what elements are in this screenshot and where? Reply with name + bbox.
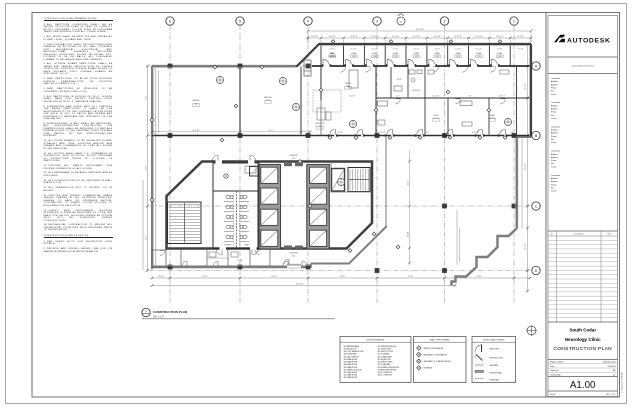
svg-text:Phone: Phone	[551, 87, 556, 89]
svg-text:EXISTING DOOR: EXISTING DOOR	[490, 358, 504, 360]
svg-text:16'-1 3/4": 16'-1 3/4"	[349, 95, 356, 97]
elevator bank 1	[258, 165, 281, 250]
svg-text:9'-2 1/2": 9'-2 1/2"	[414, 48, 420, 50]
svg-text:NEW DOOR: NEW DOOR	[490, 348, 500, 350]
autodesk logo mark	[554, 35, 565, 42]
svg-text:EXAM: EXAM	[435, 52, 440, 55]
misc small equipment rects	[317, 108, 325, 120]
exam room doors on grid A	[323, 65, 330, 68]
svg-text:TEAM: TEAM	[490, 114, 495, 117]
grid bubbles right A B C D	[532, 62, 540, 70]
exterior wall grid D bottom with columns	[152, 266, 311, 268]
svg-text:Consultant: Consultant	[551, 77, 561, 80]
svg-text:EXAM: EXAM	[497, 52, 502, 55]
svg-text:Address: Address	[551, 83, 558, 86]
janitor room	[224, 174, 229, 179]
svg-text:ROOM SCHEDULE: ROOM SCHEDULE	[367, 339, 385, 341]
svg-text:11'-4 1/2": 11'-4 1/2"	[392, 36, 400, 38]
svg-text:11'-4 1/2": 11'-4 1/2"	[311, 36, 319, 38]
restroom block	[213, 163, 259, 249]
svg-text:412 EXAM ROOM: 412 EXAM ROOM	[344, 374, 358, 377]
core outline walls	[167, 162, 373, 249]
svg-text:DOOR & WALL LEGEND: DOOR & WALL LEGEND	[483, 338, 505, 341]
stair east	[348, 168, 370, 192]
svg-text:1/8" = 1'-0": 1/8" = 1'-0"	[606, 394, 616, 396]
svg-text:Address: Address	[551, 104, 558, 107]
svg-text:2: 2	[444, 19, 446, 23]
exterior wall right upper	[530, 44, 532, 137]
detail callout circles	[216, 76, 223, 83]
svg-text:Date: Date	[607, 233, 611, 236]
svg-text:11'-4 1/2": 11'-4 1/2"	[496, 36, 504, 38]
svg-text:Project number: Project number	[550, 361, 564, 364]
core service room east	[331, 191, 372, 193]
svg-text:1205: 1205	[292, 158, 296, 160]
title block outer border	[546, 13, 620, 398]
svg-text:RATED TO DECK ABOVE: RATED TO DECK ABOVE	[424, 347, 444, 350]
svg-text:0001-010-909: 0001-010-909	[603, 362, 616, 364]
keynote diamonds	[234, 104, 238, 108]
svg-text:WALL TYPE LEGEND: WALL TYPE LEGEND	[430, 338, 450, 341]
exterior wall jog at grid B	[517, 136, 531, 138]
svg-text:404 N. HALLWAY: 404 N. HALLWAY	[344, 353, 358, 356]
autodesk logo box	[548, 16, 618, 58]
general notes text column	[44, 18, 113, 256]
doors at core top/bottom	[216, 159, 223, 163]
svg-text:11'-4 1/2": 11'-4 1/2"	[475, 36, 483, 38]
svg-text:9'-2 1/2": 9'-2 1/2"	[372, 48, 378, 50]
partition x321	[320, 67, 322, 100]
svg-text:4: 4	[307, 19, 309, 23]
svg-text:11'-4 1/2": 11'-4 1/2"	[413, 36, 421, 38]
svg-text:Phone: Phone	[551, 136, 556, 138]
svg-text:Scale: Scale	[550, 394, 556, 396]
svg-text:20'-2": 20'-2"	[269, 130, 274, 132]
svg-text:Address: Address	[551, 80, 558, 83]
svg-text:21'-8": 21'-8"	[145, 166, 147, 170]
svg-text:Consultant: Consultant	[551, 150, 561, 153]
svg-text:11'-4 1/2": 11'-4 1/2"	[371, 36, 379, 38]
svg-text:22'-10": 22'-10"	[202, 276, 208, 278]
svg-text:EXAM: EXAM	[477, 52, 482, 55]
svg-text:9'-2 1/2": 9'-2 1/2"	[476, 48, 482, 50]
svg-text:Checked by: Checked by	[550, 374, 561, 376]
svg-text:400: 400	[400, 21, 403, 23]
svg-text:A1.00: A1.00	[570, 380, 596, 391]
svg-text:407 EXAM ROOM: 407 EXAM ROOM	[344, 361, 358, 364]
keynote circle top	[397, 17, 405, 25]
svg-text:22'-10": 22'-10"	[158, 276, 164, 278]
svg-text:Address: Address	[551, 156, 558, 159]
svg-text:INSULATED TO DECK ABOVE: INSULATED TO DECK ABOVE	[424, 353, 448, 356]
svg-text:5/1/2024: 5/1/2024	[608, 366, 617, 368]
svg-text:11'-4 1/2": 11'-4 1/2"	[329, 36, 337, 38]
svg-text:414 STAFF RESTROOM: 414 STAFF RESTROOM	[378, 345, 397, 348]
svg-text:MEN'S: MEN'S	[245, 245, 250, 247]
svg-text:CORR.: CORR.	[238, 260, 243, 262]
svg-text:9'-2 1/2": 9'-2 1/2"	[497, 48, 503, 50]
svg-text:CONSTRUCTION PLAN: CONSTRUCTION PLAN	[553, 346, 612, 352]
svg-text:406 EXAM ROOM: 406 EXAM ROOM	[344, 358, 358, 361]
corridor wall east x386	[385, 137, 387, 227]
svg-text:South Cedar: South Cedar	[569, 328, 596, 333]
svg-text:PLUMBING: PLUMBING	[424, 368, 433, 370]
svg-text:6: 6	[169, 19, 171, 23]
web address box	[548, 57, 618, 74]
svg-text:8'-4 1/2": 8'-4 1/2"	[337, 132, 343, 134]
mid horizontal partition y98	[376, 97, 530, 99]
wall poche light lines	[152, 67, 296, 69]
svg-text:Fax: Fax	[551, 139, 554, 141]
svg-text:INSULATED TO 6" ABOVE CEILING: INSULATED TO 6" ABOVE CEILING	[424, 360, 452, 363]
svg-text:9'-2 1/2": 9'-2 1/2"	[435, 48, 441, 50]
drawing frame border	[32, 13, 546, 398]
compass symbol	[527, 326, 536, 335]
svg-text:9'-2 1/2": 9'-2 1/2"	[518, 48, 524, 50]
vertical dim line mid-right	[409, 150, 411, 265]
casework along x376 room	[349, 70, 358, 88]
svg-text:29'-4 1/2": 29'-4 1/2"	[192, 130, 200, 132]
svg-text:10'-1": 10'-1"	[426, 132, 430, 134]
svg-text:e-mail: e-mail	[551, 166, 557, 168]
svg-text:411 EXAM ROOM: 411 EXAM ROOM	[344, 371, 358, 374]
svg-text:EXISTING WALL: EXISTING WALL	[490, 371, 503, 374]
svg-text:CORRIDOR: CORRIDOR	[289, 253, 299, 255]
svg-text:Drawn by: Drawn by	[550, 370, 558, 372]
bottom dimension strings	[152, 277, 530, 279]
svg-text:OFFICE: OFFICE	[345, 83, 352, 85]
svg-text:www.autodesk.com/revit: www.autodesk.com/revit	[571, 64, 594, 67]
restroom fixtures middle band	[409, 70, 415, 74]
inner vertical dimension near steps	[456, 210, 458, 265]
svg-text:12'-8 1/2": 12'-8 1/2"	[472, 132, 479, 134]
project info rows	[548, 360, 618, 377]
svg-text:29'-4 1/2": 29'-4 1/2"	[525, 163, 527, 170]
svg-text:13'-2 1/2": 13'-2 1/2"	[499, 95, 506, 97]
construction plan view title	[142, 308, 150, 316]
svg-text:CORRIDOR: CORRIDOR	[289, 155, 299, 157]
revision table	[548, 231, 618, 322]
svg-text:e-mail: e-mail	[551, 191, 557, 193]
project title box	[548, 322, 618, 360]
small shaft next to east stair	[332, 169, 345, 192]
svg-text:CONSTRUCTION PLAN: CONSTRUCTION PLAN	[153, 310, 188, 314]
svg-text:Phone: Phone	[551, 184, 556, 186]
bottom small room left	[152, 250, 166, 267]
exterior wall grid A left	[152, 65, 297, 67]
narrow shaft next to bank1	[250, 167, 259, 177]
dim string above grid B left	[152, 131, 310, 133]
doors on grid D wall	[283, 261, 288, 266]
stub wall below west stair	[180, 250, 182, 267]
svg-text:403 COPY BREAK ROOM: 403 COPY BREAK ROOM	[344, 350, 364, 353]
svg-text:22'-10": 22'-10"	[477, 276, 483, 278]
svg-text:e-mail: e-mail	[551, 118, 557, 120]
svg-text:11'-4 1/2": 11'-4 1/2"	[350, 36, 358, 38]
svg-text:86'-1 1/2": 86'-1 1/2"	[296, 284, 304, 286]
svg-text:EXAM: EXAM	[352, 52, 357, 55]
svg-text:401 WAITING AREA: 401 WAITING AREA	[344, 345, 360, 348]
svg-text:Address: Address	[551, 180, 558, 183]
svg-text:22'-10": 22'-10"	[408, 276, 414, 278]
svg-text:22'-10": 22'-10"	[340, 276, 346, 278]
scale row	[548, 391, 618, 397]
svg-text:11'-10 1/2": 11'-10 1/2"	[378, 132, 386, 134]
corridor wall grid B	[152, 135, 531, 137]
svg-text:e-mail: e-mail	[551, 142, 557, 144]
exterior wall top-left diagonal	[296, 43, 319, 66]
svg-text:SUPPLIES: SUPPLIES	[412, 90, 420, 92]
svg-text:11'-4 1/2": 11'-4 1/2"	[434, 36, 442, 38]
svg-text:12'-11 1/2": 12'-11 1/2"	[432, 95, 440, 97]
svg-text:417 STORAGE: 417 STORAGE	[378, 353, 390, 356]
doors on grid B corridor	[334, 134, 336, 137]
consultant box	[548, 74, 618, 232]
svg-text:408 EXAM ROOM: 408 EXAM ROOM	[344, 363, 358, 366]
corridor diagonal wall SE	[348, 226, 386, 264]
svg-text:Address: Address	[551, 153, 558, 156]
svg-text:13'-11": 13'-11"	[408, 231, 410, 237]
svg-text:22'-10": 22'-10"	[271, 276, 277, 278]
svg-text:AUTODESK: AUTODESK	[567, 37, 611, 44]
left dimension strings	[147, 66, 149, 271]
svg-text:Consultant: Consultant	[551, 174, 561, 177]
svg-text:Fax: Fax	[551, 115, 554, 117]
svg-text:106'-3 1/2": 106'-3 1/2"	[416, 29, 425, 31]
lower small room partitions	[424, 99, 426, 135]
svg-text:410 STAFF LNG ROOM: 410 STAFF LNG ROOM	[344, 368, 363, 371]
exterior wall top	[319, 43, 532, 45]
svg-text:9'-2 1/2": 9'-2 1/2"	[330, 48, 336, 50]
legend: wall type box	[414, 337, 467, 383]
svg-text:Phone: Phone	[551, 112, 556, 114]
svg-text:421 S. HALLWAY: 421 S. HALLWAY	[378, 363, 392, 366]
stair west	[168, 202, 202, 244]
exam room partitions	[320, 45, 322, 66]
svg-text:1: 1	[513, 19, 515, 23]
svg-text:418 CLEAN LINEN: 418 CLEAN LINEN	[378, 355, 393, 358]
svg-text:Address: Address	[551, 129, 558, 132]
svg-text:EXAM: EXAM	[372, 52, 377, 55]
svg-text:6'-0": 6'-0"	[511, 132, 514, 134]
svg-text:NEW WALL: NEW WALL	[490, 364, 499, 367]
svg-text:425 N. CORRIDOR: 425 N. CORRIDOR	[378, 375, 393, 377]
svg-text:11'-4 1/2": 11'-4 1/2"	[517, 36, 525, 38]
partition on grid 5	[239, 67, 241, 135]
svg-text:10'-7": 10'-7"	[396, 95, 400, 97]
svg-text:Consultant: Consultant	[551, 101, 561, 104]
partition x301	[300, 67, 302, 135]
exterior wall left	[151, 66, 153, 269]
svg-text:e-mail: e-mail	[551, 94, 557, 96]
svg-text:409 EXAM ROOM: 409 EXAM ROOM	[344, 366, 358, 369]
diamonds along top wall	[331, 40, 335, 44]
room tags middle band	[345, 86, 352, 89]
svg-text:STATION: STATION	[328, 55, 336, 58]
svg-text:WAITING: WAITING	[192, 99, 200, 102]
svg-text:Address: Address	[551, 177, 558, 180]
svg-text:29'-4 1/2": 29'-4 1/2"	[525, 83, 527, 90]
svg-text:9'-2 1/2": 9'-2 1/2"	[351, 48, 357, 50]
doors on grid A south side	[340, 67, 345, 72]
jamb dots at B doors	[328, 134, 330, 136]
corridor wall grid A right portion	[312, 65, 531, 67]
svg-text:Address: Address	[551, 108, 558, 111]
svg-text:Fax: Fax	[551, 163, 554, 165]
svg-text:3: 3	[376, 19, 378, 23]
reception millwork dashed	[313, 90, 341, 112]
legend: room schedule box	[340, 337, 411, 383]
corridor wall south of core	[311, 263, 349, 265]
restroom plumbing chase dashed	[236, 191, 238, 248]
stepped exterior wall bottom right	[452, 228, 518, 286]
svg-text:9'-2 1/2": 9'-2 1/2"	[455, 48, 461, 50]
svg-text:1204: 1204	[292, 255, 296, 257]
svg-text:405 CALL STATION: 405 CALL STATION	[344, 355, 360, 358]
svg-text:5: 5	[239, 19, 241, 23]
svg-text:EXAM: EXAM	[414, 52, 419, 55]
column grid lines	[169, 26, 171, 304]
bottom corridor small rooms	[206, 250, 208, 267]
svg-text:No.: No.	[551, 234, 554, 236]
svg-text:Neurology Clinic: Neurology Clinic	[565, 337, 601, 342]
svg-text:9'-2 1/2": 9'-2 1/2"	[393, 48, 399, 50]
svg-text:STOR.: STOR.	[397, 79, 402, 81]
toilet fixtures	[226, 195, 230, 198]
svg-text:Description: Description	[574, 233, 583, 236]
grid bubbles top 6 5 4 3 2 1	[166, 17, 174, 25]
svg-text:RECEPTION: RECEPTION	[316, 123, 325, 125]
legend: door and wall box	[472, 337, 516, 383]
partition x376	[375, 67, 377, 135]
svg-text:21'-8": 21'-8"	[145, 96, 147, 100]
svg-text:21'-8": 21'-8"	[145, 236, 147, 240]
elevator bank 2	[307, 165, 330, 250]
svg-text:Phone: Phone	[551, 160, 556, 162]
svg-text:TECH: TECH	[434, 115, 439, 117]
svg-text:CALL: CALL	[330, 52, 334, 55]
svg-text:Consultant: Consultant	[551, 125, 561, 128]
overall dim line above top wall	[308, 30, 531, 32]
svg-text:Address: Address	[551, 132, 558, 135]
svg-text:24'-7": 24'-7"	[408, 180, 410, 185]
structural columns at grid intersections	[168, 64, 173, 69]
svg-text:1/8" = 1'-0": 1/8" = 1'-0"	[153, 317, 164, 319]
top dimension string	[306, 37, 531, 39]
upper small room partitions	[390, 67, 392, 98]
svg-text:Fax: Fax	[551, 187, 554, 189]
exterior wall right lower	[516, 136, 518, 228]
doors on y98 wall	[395, 99, 400, 104]
svg-text:MEETING: MEETING	[264, 97, 272, 99]
svg-text:413 TEAM ROOM: 413 TEAM ROOM	[344, 376, 358, 379]
sheet number box	[548, 377, 618, 392]
svg-text:9'-8": 9'-8"	[469, 95, 472, 97]
svg-text:11'-4 1/2": 11'-4 1/2"	[454, 36, 462, 38]
right dimension string	[527, 44, 529, 291]
svg-text:29'-4 1/2": 29'-4 1/2"	[525, 243, 527, 250]
svg-text:5/11/2024 10:18:08 AM: 5/11/2024 10:18:08 AM	[621, 372, 624, 393]
svg-text:EXAM: EXAM	[393, 52, 398, 55]
elevator corridor doors	[284, 163, 292, 166]
svg-text:Fax: Fax	[551, 91, 554, 93]
svg-text:EXAM: EXAM	[456, 52, 461, 55]
svg-text:DEMO WALL: DEMO WALL	[490, 379, 500, 382]
